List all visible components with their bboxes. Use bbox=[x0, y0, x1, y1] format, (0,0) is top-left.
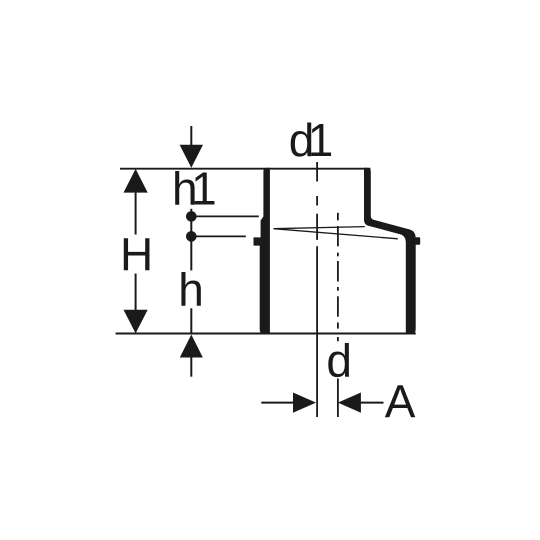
svg-text:d1: d1 bbox=[289, 114, 332, 166]
svg-text:H: H bbox=[120, 229, 153, 281]
svg-text:h: h bbox=[178, 263, 204, 315]
svg-text:h1: h1 bbox=[172, 163, 215, 215]
svg-text:d: d bbox=[326, 334, 352, 386]
svg-text:A: A bbox=[385, 375, 416, 427]
